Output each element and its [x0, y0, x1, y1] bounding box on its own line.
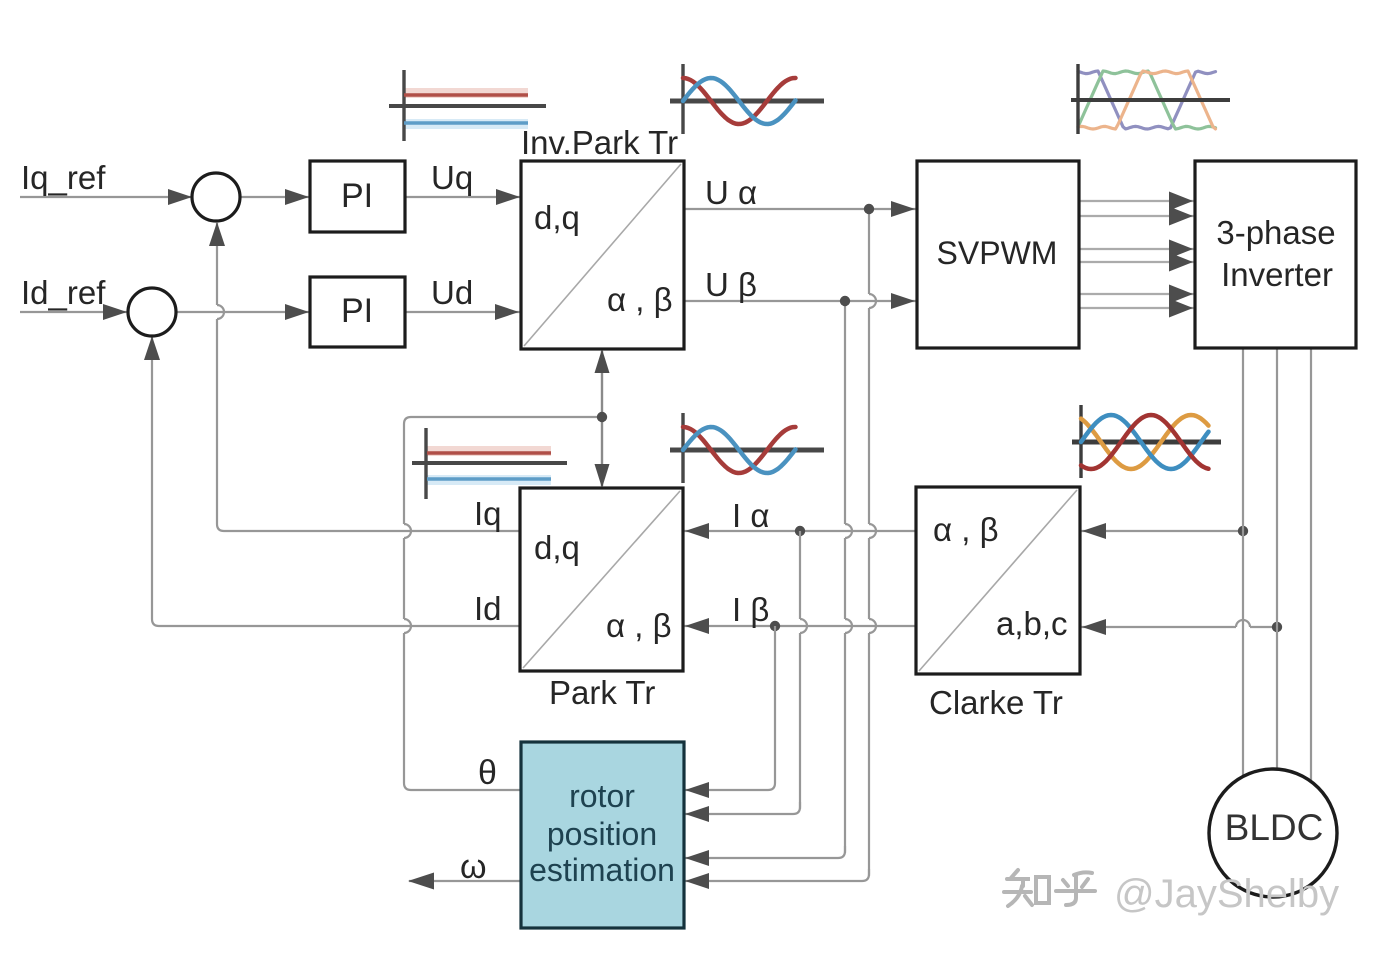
block Clarke Tr [916, 487, 1080, 674]
block PI 1 [310, 161, 405, 232]
block Park Tr [520, 488, 683, 671]
wire Uq PI1 to Inv.Park [405, 196, 521, 198]
wire motor phase b [1276, 348, 1278, 770]
svg-text:SVPWM: SVPWM [937, 235, 1058, 271]
svg-text:estimation: estimation [529, 852, 675, 888]
svg-text:Ud: Ud [431, 274, 473, 311]
wire phase-b tap to Clarke abc [1250, 626, 1277, 628]
wire Ud PI2 to Inv.Park [405, 311, 521, 313]
icon step-chart above PI1 (red/blue reference lines) [389, 70, 546, 141]
block Inv.Park Tr [521, 161, 684, 349]
icon sine-chart below Inv.Park Tr (Ialpha/Ibeta sines) [670, 413, 824, 483]
svg-text:Inv.Park Tr: Inv.Park Tr [521, 124, 678, 161]
wire Id_ref input [20, 311, 130, 313]
wire U beta to SVPWM [684, 300, 916, 302]
svg-text:Clarke Tr: Clarke Tr [929, 684, 1063, 721]
wire U alpha to SVPWM [684, 208, 916, 210]
block SVPWM [917, 161, 1079, 348]
wire theta vertical to Inv.Park and Park Tr [601, 351, 603, 486]
summing junction 2 (Id) [128, 288, 176, 336]
svg-text:PI: PI [341, 177, 373, 215]
svg-text:α , β: α , β [607, 281, 673, 318]
svg-text:Park Tr: Park Tr [549, 674, 655, 711]
svg-text:d,q: d,q [534, 199, 580, 236]
svg-text:BLDC: BLDC [1225, 807, 1324, 848]
block rotor position estimation [521, 742, 684, 928]
icon 3-phase sine chart above Clarke Tr (ia/ib/ic) [1072, 405, 1221, 478]
wire omega output [409, 880, 521, 882]
svg-text:Iq: Iq [474, 495, 502, 532]
wire motor phase a [1242, 348, 1244, 776]
svg-text:α , β: α , β [606, 607, 672, 644]
summing junction 1 (Iq) [192, 173, 240, 221]
junction dot U alpha [864, 204, 874, 214]
watermark zhihu logo [1004, 870, 1095, 906]
svg-text:3-phase: 3-phase [1216, 214, 1335, 251]
wire theta from rotor position estimation [404, 633, 521, 790]
svg-text:ω: ω [460, 848, 487, 886]
svg-text:U β: U β [705, 266, 757, 303]
wire summing1 to PI1 [240, 196, 310, 198]
icon sine-chart above Inv.Park Tr (Ualpha/Ubeta sines) [670, 64, 824, 134]
junction dot I beta [770, 621, 780, 631]
svg-text:@JayShelby: @JayShelby [1114, 872, 1339, 916]
svg-text:I α: I α [732, 497, 769, 534]
svg-text:Iq_ref: Iq_ref [21, 159, 106, 196]
wire I beta Clarke to Park [684, 625, 916, 627]
wire U beta tap down to rotor estimator [844, 301, 846, 524]
icon svpwm-chart above SVPWM (3-phase modulation waves) [1071, 64, 1230, 134]
svg-text:Id: Id [474, 590, 502, 627]
svg-text:Uq: Uq [431, 159, 473, 196]
svg-text:d,q: d,q [534, 529, 580, 566]
wire Id feedback [152, 337, 520, 626]
svg-text:θ: θ [478, 754, 497, 792]
wire motor phase c [1310, 348, 1312, 781]
svg-text:Inverter: Inverter [1221, 256, 1333, 293]
svg-text:α , β: α , β [933, 511, 999, 548]
junction dot U beta [840, 296, 850, 306]
svg-text:U α: U α [705, 174, 757, 211]
svg-text:I β: I β [732, 591, 769, 628]
svg-text:Id_ref: Id_ref [21, 274, 106, 311]
junction dot theta [597, 412, 607, 422]
wires PWM signals SVPWM to 3-phase inverter [1079, 200, 1194, 202]
svg-text:rotor: rotor [569, 778, 635, 814]
icon step-chart beside Park Tr (Iq/Id levels) [412, 428, 567, 499]
svg-text:PI: PI [341, 292, 373, 330]
wire I beta tap down to rotor estimator [684, 626, 775, 790]
junction dot phase-a [1238, 526, 1248, 536]
wire Iq_ref input [20, 196, 195, 198]
motor BLDC [1209, 769, 1337, 897]
svg-text:position: position [547, 816, 657, 852]
block 3-phase inverter [1195, 161, 1356, 348]
wire U alpha tap down to rotor estimator [868, 209, 870, 294]
svg-text:a,b,c: a,b,c [996, 605, 1068, 642]
block PI 2 [310, 277, 405, 347]
wire Iq feedback [217, 319, 520, 531]
junction dot I alpha [795, 526, 805, 536]
junction dot phase-b [1272, 622, 1282, 632]
wire I alpha Clarke to Park [684, 530, 916, 532]
wire phase-a tap to Clarke alpha-beta [1081, 530, 1243, 532]
wire I alpha tap down to rotor estimator [799, 531, 801, 619]
wire summing2 to PI2 [176, 311, 310, 313]
